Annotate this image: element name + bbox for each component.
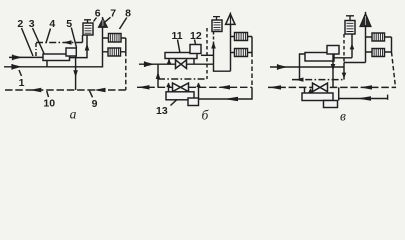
wire: upper supply line 2	[9, 56, 43, 58]
return arrow left 1	[269, 85, 281, 89]
up arrow on connector	[156, 72, 161, 79]
wire: supply line	[270, 66, 344, 68]
heater upper	[372, 33, 385, 41]
bottom line	[339, 98, 388, 100]
svg-text:б: б	[202, 107, 210, 122]
svg-text:9: 9	[92, 98, 98, 110]
arrow on bottom line	[357, 96, 371, 100]
return arrow left 2	[94, 88, 106, 92]
lower bypass right vertical	[338, 87, 340, 100]
leader 4	[46, 29, 51, 44]
svg-text:10: 10	[43, 98, 55, 110]
supply jog to riser	[214, 64, 231, 71]
vent T	[213, 17, 220, 20]
wire small box to valve drain	[333, 57, 352, 59]
lower filter box	[302, 93, 333, 101]
pilot dash-dot	[292, 79, 344, 81]
bypass left connector	[168, 59, 170, 65]
lower bypass left L	[168, 83, 170, 92]
heater stubs	[366, 37, 392, 52]
return arrow left 1	[29, 88, 41, 92]
riser	[365, 26, 367, 63]
drain from small box to return	[332, 54, 334, 87]
leader 3	[33, 28, 45, 54]
relief valve body	[345, 21, 355, 35]
supply jog	[344, 62, 366, 64]
down arrow on pilot riser	[342, 73, 347, 79]
valve box 5 (small box)	[66, 48, 76, 56]
spring hatch in valve 6	[85, 26, 92, 34]
pilot riser	[343, 63, 345, 80]
bypass left L	[300, 54, 306, 67]
pilot dash-dot line 4	[36, 42, 83, 44]
svg-text:7: 7	[110, 8, 116, 20]
heater stubs	[231, 37, 253, 53]
leader 12	[195, 40, 196, 45]
down arrow on drain	[73, 70, 78, 77]
up arrow on lower connector	[196, 83, 201, 88]
relief valve drain vertical	[213, 42, 215, 65]
connector supply to return	[157, 64, 159, 87]
drain wire down	[75, 56, 77, 90]
svg-text:2: 2	[17, 18, 23, 30]
heater left stubs	[103, 38, 109, 52]
return arrow left 2	[218, 85, 230, 89]
pilot riser dashed	[206, 28, 208, 79]
filter box 3 (long box)	[43, 54, 70, 61]
pilot dash-dot line	[158, 78, 207, 80]
return dashed line	[5, 89, 126, 91]
connector supply to pilot	[299, 67, 301, 80]
heater upper	[235, 33, 248, 41]
leader 2	[22, 28, 34, 56]
valve box 12 (small)	[190, 45, 201, 54]
leader 8	[120, 18, 127, 30]
wire from filter to relief valve riser	[70, 35, 88, 58]
gate valve (bowtie) on return	[313, 83, 328, 92]
valve drain vertical	[351, 34, 353, 58]
relief valve 6 body	[83, 23, 93, 35]
svg-text:в: в	[340, 108, 346, 123]
vent T on valve 6	[84, 20, 91, 23]
leader 9	[90, 91, 93, 98]
pump triangle	[360, 14, 371, 27]
lower bypass right connector	[198, 83, 200, 98]
arrow on line 1	[11, 64, 13, 70]
right vertical solid	[125, 38, 127, 52]
lower filter box	[166, 92, 194, 100]
heater lower	[235, 49, 248, 57]
bypass right connector	[193, 59, 195, 65]
right vertical dashed to return	[125, 52, 127, 90]
arrow on upper supply	[12, 55, 14, 61]
up arrow on bypass left connector	[167, 59, 171, 64]
arrow on bottom line	[224, 97, 238, 101]
down arrow on drain	[331, 64, 336, 71]
leader 7	[105, 17, 111, 22]
leader 1	[19, 70, 22, 76]
dashed pilot to valve	[343, 34, 345, 63]
leader 6	[94, 18, 97, 22]
right vertical	[251, 37, 253, 53]
bottom line	[199, 87, 253, 99]
riser	[230, 24, 232, 71]
gate valve 13 (bowtie) on return	[173, 83, 189, 92]
svg-text:1: 1	[19, 77, 25, 89]
up arrow at lower left connector	[308, 88, 313, 92]
heater lower	[372, 49, 385, 57]
hook at end of bottom line	[387, 95, 389, 100]
svg-text:12: 12	[190, 30, 202, 42]
up arrow to relief valve	[85, 44, 90, 51]
svg-text:13: 13	[156, 105, 168, 117]
stub from filter to line 1	[46, 61, 48, 67]
heater 8 lower	[108, 48, 121, 56]
lower small box	[324, 101, 338, 108]
return arrow left 2	[360, 85, 372, 89]
return arrow left 1	[138, 85, 150, 89]
valve box (small)	[327, 46, 339, 55]
right vertical	[391, 37, 393, 52]
pilot vertical to valve	[82, 35, 84, 43]
return dash line	[137, 86, 252, 88]
up arrow on drain	[211, 42, 216, 49]
lower bypass left connector	[304, 87, 306, 93]
wire: supply line	[139, 63, 214, 65]
pilot left arrow	[295, 78, 304, 82]
gate valve 11 (bowtie) on supply	[176, 60, 187, 69]
spring hatch	[347, 23, 354, 31]
pilot vertical to supply	[35, 43, 37, 57]
heater right stubs	[121, 38, 126, 52]
heater 8 upper	[109, 34, 122, 43]
lower small box	[188, 98, 199, 106]
filter box (long)	[305, 53, 334, 62]
vent T	[346, 16, 354, 21]
arrow on supply	[144, 61, 146, 67]
spring hatch	[214, 22, 221, 29]
pump arrow 7 (triangle)	[99, 19, 108, 28]
leader 13	[171, 100, 178, 106]
leader 5	[71, 28, 76, 48]
small box link to drain	[201, 54, 214, 56]
relief valve body	[212, 20, 222, 32]
arrow on supply	[277, 64, 279, 70]
svg-text:а: а	[70, 107, 77, 122]
svg-text:4: 4	[49, 18, 55, 30]
pump triangle	[226, 14, 235, 24]
return dashed line	[268, 86, 396, 88]
filter box (long)	[165, 53, 197, 59]
svg-text:3: 3	[29, 18, 35, 30]
leader 10	[47, 91, 49, 97]
left arrow on pilot	[63, 40, 72, 44]
wire: main line 1	[4, 27, 103, 67]
up arrow on valve drain	[350, 44, 355, 50]
leader 11	[178, 40, 180, 53]
